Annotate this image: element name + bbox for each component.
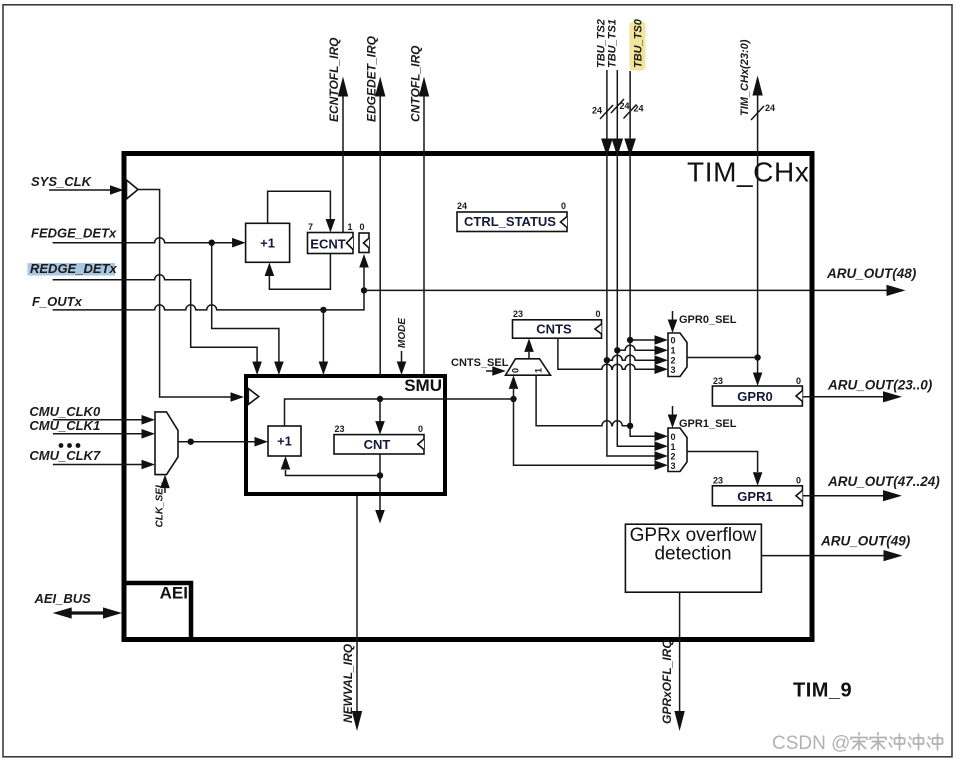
svg-text:0: 0 [796, 376, 801, 386]
svg-text:GPR0_SEL: GPR0_SEL [679, 314, 737, 326]
node TS0 tap [627, 423, 633, 429]
svg-text:ARU_OUT(47..24): ARU_OUT(47..24) [827, 474, 940, 489]
svg-text:+1: +1 [260, 236, 275, 251]
wire F_OUT branch to SMU [322, 310, 324, 362]
register ECNT [308, 222, 354, 254]
svg-text:MODE: MODE [397, 318, 408, 348]
block GPRx overflow detection [625, 524, 761, 592]
svg-text:0: 0 [418, 424, 423, 434]
svg-text:1: 1 [534, 368, 544, 373]
svg-text:ARU_OUT(49): ARU_OUT(49) [820, 534, 911, 549]
wire TBU_TS1 inside [617, 154, 655, 446]
block +1 (edge counter) [246, 223, 290, 262]
svg-text:3: 3 [671, 461, 676, 471]
svg-text:CTRL_STATUS: CTRL_STATUS [464, 214, 556, 229]
wire CNT down stub [379, 454, 381, 510]
svg-text:CMU_CLK0: CMU_CLK0 [29, 404, 101, 419]
wire ARU_OUT(47..24) [802, 474, 940, 501]
wire EDGEDET_IRQ [365, 35, 386, 376]
svg-text:detection: detection [654, 544, 731, 565]
svg-text:CNT: CNT [364, 437, 391, 452]
svg-text:SMU: SMU [404, 376, 442, 395]
port F_OUTx [32, 294, 323, 310]
svg-text:0: 0 [360, 222, 365, 232]
svg-text:24: 24 [620, 101, 630, 111]
wire +1 output bus [285, 399, 514, 426]
svg-text:0: 0 [595, 309, 600, 319]
block AEI [124, 583, 191, 640]
node CNT in [377, 396, 383, 402]
wire GPR0 mux in2 from TS2 [607, 355, 655, 360]
wire SMU out up to mux in0 [513, 389, 515, 399]
node F_OUT junction [320, 307, 326, 313]
svg-text:ARU_OUT(48): ARU_OUT(48) [826, 266, 917, 281]
svg-text:GPR1: GPR1 [737, 489, 772, 504]
wire +1 to ECNT [268, 191, 331, 223]
svg-text:TIM_CHx(23:0): TIM_CHx(23:0) [739, 39, 751, 116]
svg-text:CNTOFL_IRQ: CNTOFL_IRQ [409, 45, 423, 122]
svg-text:TIM_CHx: TIM_CHx [687, 157, 809, 188]
svg-text:AEI_BUS: AEI_BUS [34, 591, 92, 606]
svg-text:1: 1 [671, 346, 676, 356]
svg-text:CMU_CLK7: CMU_CLK7 [29, 448, 101, 463]
svg-text:CNTS_SEL: CNTS_SEL [451, 357, 509, 369]
node ARU_OUT(48) junction [361, 287, 367, 293]
port CLK_SEL [155, 475, 170, 528]
port REDGE_DETx (highlighted) [28, 261, 262, 375]
wire CNTS out to GPR0 mux in3 [558, 338, 655, 369]
port GPR0_SEL [668, 311, 737, 333]
wire CLK mux output to SMU +1 [178, 441, 255, 443]
svg-text:FEDGE_DETx: FEDGE_DETx [31, 226, 117, 241]
wire ECNTOFL_IRQ [327, 37, 348, 233]
wire CNTOFL_IRQ [409, 45, 430, 376]
svg-text:GPR0: GPR0 [737, 389, 772, 404]
register GPR0 [712, 376, 802, 406]
port CMU_CLK7 [29, 448, 155, 470]
wire TBU_TS2 inside [607, 154, 655, 456]
node CNT feedback [377, 472, 383, 478]
svg-text:0: 0 [511, 368, 521, 373]
port SYS_CLK [31, 174, 124, 195]
wire CNTS mux to CNTS [528, 352, 530, 359]
port TBU_TS2 [592, 19, 613, 156]
node FEDGE junction [209, 240, 215, 246]
mux GPR1_SEL [668, 428, 687, 472]
svg-text:TBU_TS0: TBU_TS0 [633, 18, 645, 68]
port GPR1_SEL [668, 406, 737, 430]
svg-text:24: 24 [592, 106, 602, 116]
register CNT [334, 424, 424, 454]
svg-text:EDGEDET_IRQ: EDGEDET_IRQ [365, 35, 379, 122]
svg-text:23: 23 [335, 424, 345, 434]
svg-text:REDGE_DETx: REDGE_DETx [30, 261, 117, 276]
register CNTS [513, 309, 602, 338]
svg-text:7: 7 [308, 222, 313, 232]
watermark CSDN [772, 732, 943, 754]
svg-text:NEWVAL_IRQ: NEWVAL_IRQ [341, 643, 355, 723]
wire F_OUT up to edge register [323, 268, 364, 310]
port CNTS_SEL [451, 357, 509, 376]
svg-text:3: 3 [671, 365, 676, 375]
block SMU outline [246, 376, 445, 494]
wire GPR0 mux in1 from TS1 [617, 345, 655, 350]
port MODE [397, 318, 408, 375]
svg-text:CMU_CLK1: CMU_CLK1 [29, 418, 100, 433]
clock buffer triangle TIM_CHx [127, 180, 139, 199]
register F_OUT bit [359, 222, 369, 253]
svg-text:0: 0 [671, 336, 676, 346]
svg-text:0: 0 [561, 201, 566, 211]
wire GPR1 mux out [687, 452, 758, 473]
wire SYS_CLK to SMU clock [138, 190, 232, 398]
wire NEWVAL_IRQ [341, 496, 362, 731]
port CMU_CLK0 [29, 404, 155, 425]
port TBU_TS1 [607, 19, 630, 156]
mux CLK_SEL [155, 412, 178, 475]
svg-text:24: 24 [634, 104, 644, 114]
node SMU out [510, 396, 516, 402]
svg-text:23: 23 [713, 476, 723, 486]
svg-text:ECNTOFL_IRQ: ECNTOFL_IRQ [327, 37, 341, 122]
mux GPR0_SEL [668, 333, 687, 377]
svg-text:24: 24 [457, 201, 467, 211]
wire ECNT feedback to +1 [269, 254, 330, 290]
port TBU_TS0 (highlighted) [624, 18, 646, 156]
wire GPRxOFL_IRQ [660, 592, 685, 731]
svg-text:+1: +1 [277, 434, 292, 449]
port AEI_BUS [34, 591, 123, 619]
wire GPR1 mux in3 from CNT [514, 399, 656, 465]
svg-text:2: 2 [671, 452, 676, 462]
svg-text:1: 1 [671, 442, 676, 452]
wire into CNT [379, 399, 381, 422]
svg-text:CNTS: CNTS [536, 322, 572, 337]
svg-text:ECNT: ECNT [310, 237, 345, 252]
mux CNTS_SEL [506, 359, 551, 375]
wire ARU_OUT(48) [364, 289, 892, 291]
port FEDGE_DETx [31, 226, 246, 248]
wire ARU_OUT(23..0) [802, 378, 932, 403]
node clk out [188, 439, 194, 445]
svg-text:AEI: AEI [160, 584, 188, 603]
wire FEDGE branch to SMU [212, 243, 279, 362]
wire CNTS mux in1 from TBU_TS0 [536, 375, 627, 426]
wire CNT feedback to +1 [286, 470, 381, 476]
svg-text:ARU_OUT(23..0): ARU_OUT(23..0) [827, 378, 933, 393]
svg-text:1: 1 [348, 222, 353, 232]
block TIM_CHx outline [124, 154, 812, 640]
wire GPR0 mux in0 from TS0 [630, 339, 655, 341]
wire TBU_TS0 inside [630, 154, 655, 436]
register CTRL_STATUS [457, 201, 567, 232]
register GPR1 [712, 476, 802, 506]
wire ARU_OUT(49) [761, 534, 910, 562]
svg-text:23: 23 [513, 309, 523, 319]
port TIM_CHx(23:0) [739, 39, 775, 358]
clock buffer triangle SMU [248, 389, 258, 405]
svg-text:0: 0 [796, 476, 801, 486]
svg-text:CSDN @: CSDN @ [772, 733, 850, 754]
port CMU_CLK1 [29, 418, 155, 439]
svg-text:CLK_SEL: CLK_SEL [155, 482, 166, 528]
wire GPR0 mux out [687, 357, 758, 359]
svg-text:24: 24 [765, 103, 775, 113]
block +1 (SMU) [268, 426, 301, 456]
svg-text:TIM_9: TIM_9 [793, 680, 852, 702]
ellipsis dots [59, 443, 81, 448]
svg-text:0: 0 [671, 432, 676, 442]
svg-text:GPRxOFL_IRQ: GPRxOFL_IRQ [660, 639, 674, 724]
svg-text:SYS_CLK: SYS_CLK [31, 174, 93, 189]
svg-text:23: 23 [713, 376, 723, 386]
svg-text:GPR1_SEL: GPR1_SEL [679, 418, 737, 430]
svg-text:TBU_TS1: TBU_TS1 [607, 19, 619, 68]
svg-text:F_OUTx: F_OUTx [32, 294, 83, 309]
